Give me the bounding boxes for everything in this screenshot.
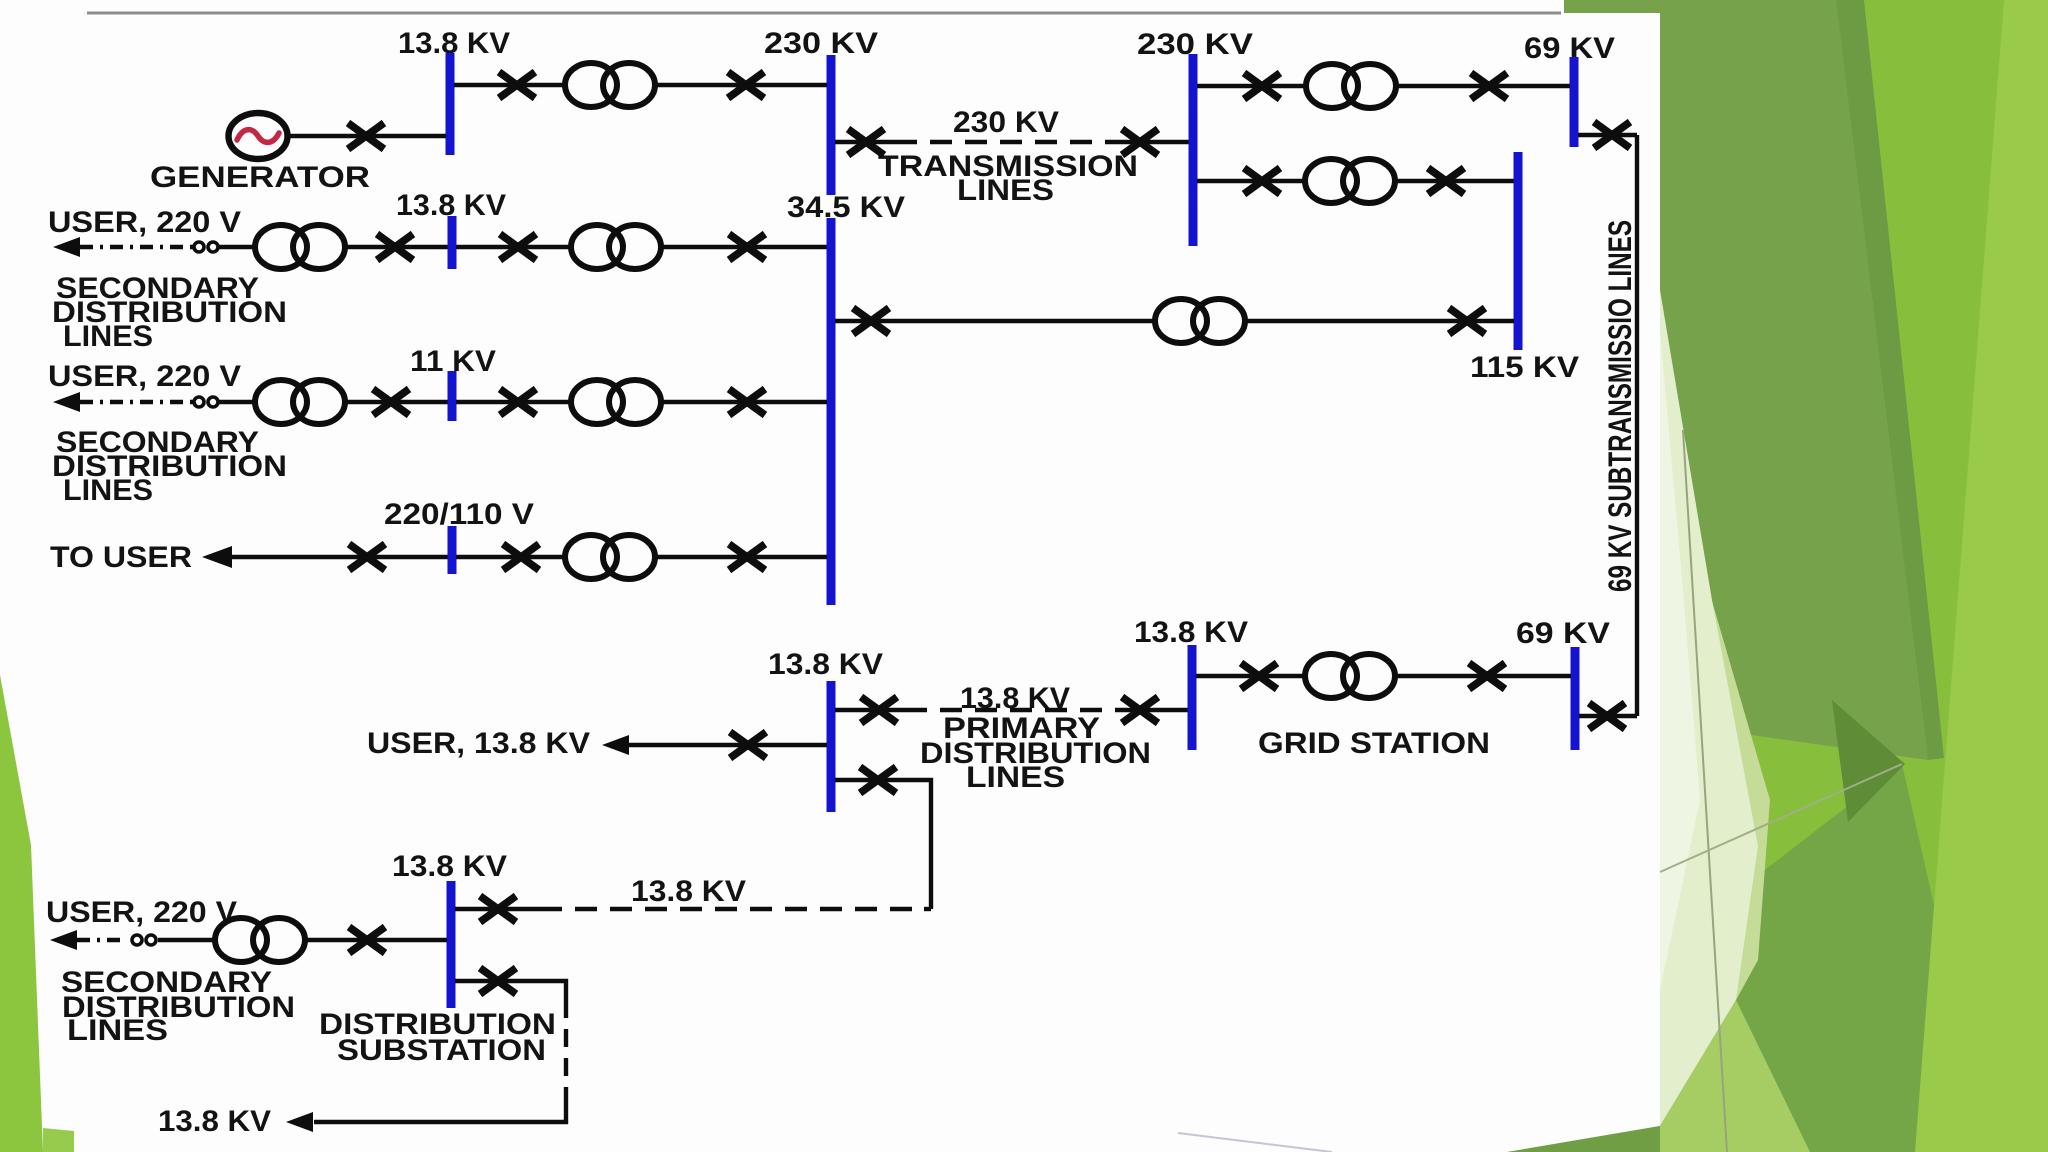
wire <box>655 83 827 87</box>
wire <box>456 245 571 249</box>
breaker CB29 <box>349 927 385 953</box>
green band: light right column <box>1915 0 2048 1152</box>
wire <box>835 140 895 144</box>
breaker CB7 <box>500 389 536 415</box>
wire <box>835 319 1155 323</box>
wire <box>305 938 447 942</box>
hairline bottom white area <box>1178 1133 1332 1152</box>
wire <box>1397 179 1514 183</box>
arrowhead <box>50 930 77 950</box>
svg-text:USER, 220 V: USER, 220 V <box>46 896 237 929</box>
green band: pale strip highlight <box>1660 330 1700 990</box>
svg-text:115 KV: 115 KV <box>1470 351 1579 384</box>
svg-text:LINES: LINES <box>966 761 1065 794</box>
wire <box>548 981 566 1000</box>
svg-text:LINES: LINES <box>63 320 153 353</box>
wire <box>314 1105 566 1122</box>
wire <box>1125 708 1188 712</box>
transformer T5 34.5/11 <box>571 380 661 424</box>
svg-text:TO USER: TO USER <box>50 541 192 574</box>
wire (dash-dot) <box>77 938 125 942</box>
bus 230 KV left <box>827 55 836 195</box>
breaker CB23 <box>730 732 766 758</box>
svg-text:13.8 KV: 13.8 KV <box>392 850 507 883</box>
transformer T4 distribution <box>255 380 345 424</box>
svg-text:220/110 V: 220/110 V <box>384 498 534 531</box>
transformer T8 230/115 <box>1305 159 1395 203</box>
wire <box>1579 714 1637 718</box>
green band: pale strip <box>1660 290 1758 1126</box>
line coupler (oo) <box>194 242 218 252</box>
arrowhead <box>53 237 80 257</box>
left bottom green step <box>43 1128 74 1152</box>
wire <box>1196 674 1305 678</box>
wire <box>835 708 905 712</box>
breaker CB21 <box>861 697 897 723</box>
wire <box>456 400 571 404</box>
breaker CB3 <box>377 234 413 260</box>
breaker CB25 <box>1241 663 1277 689</box>
transformer T7 230/69 <box>1306 64 1396 108</box>
breaker CB24 <box>860 767 896 793</box>
green band: pale strip outer <box>1700 560 1770 1000</box>
green band: sage wedge <box>1564 0 1928 760</box>
bus 13.8 KV grid <box>1188 645 1197 750</box>
svg-text:69 KV: 69 KV <box>1516 617 1610 650</box>
svg-text:13.8 KV: 13.8 KV <box>158 1105 271 1138</box>
arrowhead <box>602 735 629 755</box>
svg-text:13.8 KV: 13.8 KV <box>631 875 746 908</box>
wire <box>629 743 827 747</box>
wire <box>158 938 215 942</box>
bus 69 KV top <box>1570 57 1579 147</box>
wire (dashed) <box>895 140 1115 144</box>
green band: dark bottom triangle <box>1507 1126 1660 1152</box>
breaker CB13 <box>1122 129 1158 155</box>
breaker CB22 <box>1122 697 1158 723</box>
bus 230 KV right <box>1189 54 1198 246</box>
breaker CB gen <box>348 123 384 149</box>
bus 13.8 KV secondary <box>448 216 457 269</box>
green band: dark wedge <box>1836 0 1944 760</box>
svg-text:69 KV SUBTRANSMISSIO LINES: 69 KV SUBTRANSMISSIO LINES <box>1602 220 1638 592</box>
breaker CB16 <box>1244 168 1280 194</box>
breaker CB12 <box>848 129 884 155</box>
bus 69 KV grid <box>1571 647 1580 750</box>
transformer T3 34.5/13.8 <box>571 225 661 269</box>
svg-text:LINES: LINES <box>67 1014 168 1047</box>
generator G1 <box>229 113 288 159</box>
wire subtransmission vertical <box>1635 135 1639 716</box>
svg-text:SUBSTATION: SUBSTATION <box>337 1034 546 1067</box>
breaker CB1 <box>499 72 535 98</box>
svg-text:USER, 13.8 KV: USER, 13.8 KV <box>367 727 590 760</box>
breaker CB11 <box>729 544 765 570</box>
green band: dark triangle mid band <box>1832 700 1905 822</box>
bus 13.8 KV primary <box>827 681 836 812</box>
svg-text:GRID STATION: GRID STATION <box>1258 727 1490 760</box>
wire <box>232 555 448 559</box>
wire (dashed) <box>540 907 924 911</box>
wire <box>924 907 931 911</box>
arrowhead <box>53 392 80 412</box>
bus 34.5 KV <box>827 218 836 605</box>
wire <box>655 555 827 559</box>
wire <box>1578 133 1637 137</box>
bus 115 KV <box>1514 152 1523 350</box>
breaker CB17 <box>1428 168 1464 194</box>
breaker CB4 <box>500 234 536 260</box>
green band: base bright green <box>1507 0 2048 1152</box>
wire (dash-dot) <box>80 245 193 249</box>
wire <box>219 245 255 249</box>
bus 220/110 V <box>448 526 457 574</box>
transformer T9 34.5/115 <box>1155 299 1245 343</box>
transformer T1 13.8/230 <box>565 63 655 107</box>
breaker CB26 <box>1469 663 1505 689</box>
svg-text:230 KV: 230 KV <box>764 27 878 60</box>
wire (dashed) <box>905 708 1125 712</box>
wire <box>455 907 540 911</box>
wire <box>1115 140 1189 144</box>
wire <box>1247 319 1514 323</box>
breaker CB18 <box>1594 122 1630 148</box>
breaker CB14 <box>1244 73 1280 99</box>
arrowhead <box>286 1112 313 1132</box>
transformer T2 distribution <box>255 225 345 269</box>
svg-text:13.8 KV: 13.8 KV <box>1134 616 1248 649</box>
breaker CB2 <box>728 72 764 98</box>
bus 13.8 KV distribution substation <box>447 881 456 1008</box>
svg-text:LINES: LINES <box>63 474 153 507</box>
wire <box>661 245 827 249</box>
svg-text:USER, 220 V: USER, 220 V <box>48 206 241 239</box>
breaker CB30 <box>480 968 516 994</box>
breaker CB5 <box>729 234 765 260</box>
breaker CB15 <box>1471 73 1507 99</box>
svg-text:13.8 KV: 13.8 KV <box>768 648 883 681</box>
slide top border line <box>87 12 1561 15</box>
breaker CB20 <box>1449 308 1485 334</box>
wire <box>345 245 448 249</box>
wire <box>454 83 565 87</box>
svg-text:USER, 220 V: USER, 220 V <box>48 360 241 393</box>
wire <box>456 555 565 559</box>
wire <box>1397 674 1571 678</box>
wire <box>1197 179 1305 183</box>
wire (dashed) <box>564 1000 568 1105</box>
wire <box>835 780 931 909</box>
left bottom green wedge <box>0 675 43 1152</box>
arrowhead <box>202 546 232 568</box>
breaker CB28 <box>480 896 516 922</box>
breaker CB8 <box>729 389 765 415</box>
wire <box>455 979 548 983</box>
breaker CB10 <box>503 544 539 570</box>
breaker CB9 <box>349 544 385 570</box>
bus 11 KV <box>448 371 457 421</box>
wire <box>1197 84 1306 88</box>
wire <box>1398 84 1570 88</box>
breaker CB19 <box>853 308 889 334</box>
green band: medium lower region <box>1660 764 1990 1152</box>
transformer T11 13.8/220 <box>215 918 305 962</box>
svg-text:34.5 KV: 34.5 KV <box>787 191 905 224</box>
transformer T6 34.5/220 <box>565 535 655 579</box>
breaker CB6 <box>373 389 409 415</box>
transformer T10 grid 13.8/69 <box>1305 654 1395 698</box>
hairline in band (shallow) <box>1660 764 1902 872</box>
line coupler bottom (oo) <box>132 935 156 945</box>
line coupler (oo) <box>194 397 218 407</box>
hairline in band (steep) <box>1683 430 1727 1152</box>
svg-text:230 KV: 230 KV <box>953 106 1059 139</box>
wire <box>661 400 827 404</box>
wire <box>345 400 448 404</box>
green band: medium-light wedge <box>1660 1000 1810 1152</box>
wire <box>219 400 255 404</box>
svg-text:GENERATOR: GENERATOR <box>150 161 370 194</box>
svg-text:LINES: LINES <box>957 174 1054 207</box>
bus 13.8 KV generator <box>446 53 455 155</box>
wire (dash-dot) <box>80 400 193 404</box>
wire <box>288 134 446 138</box>
breaker CB27 <box>1589 703 1625 729</box>
